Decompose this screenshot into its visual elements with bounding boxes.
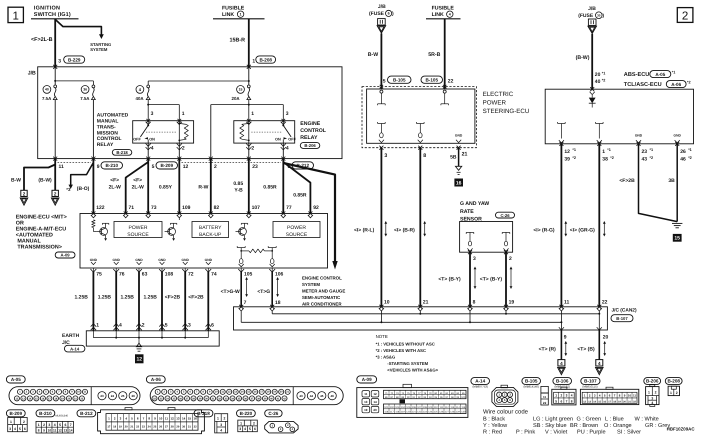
ECU top pin 92	[308, 212, 312, 216]
svg-text:(B-W): (B-W)	[38, 178, 52, 184]
fuse 40 (7.5A)	[43, 86, 51, 94]
svg-text:128: 128	[450, 411, 455, 414]
wire: <T> (B) to connector 4b	[598, 330, 600, 360]
relay B-206 pin 3 top	[282, 119, 286, 123]
svg-text:<F>: <F>	[110, 177, 119, 183]
svg-text:3: 3	[473, 256, 476, 262]
svg-text:32: 32	[194, 426, 197, 429]
ABS input pin with diode	[590, 87, 594, 91]
svg-text:1: 1	[251, 111, 254, 117]
svg-text:109: 109	[428, 406, 433, 409]
wire: <I> (R-L) EPS 3 to CAN pin 10	[380, 148, 382, 307]
svg-text:B-105: B-105	[425, 77, 438, 82]
svg-text:<F>2B: <F>2B	[619, 178, 635, 184]
svg-text:11: 11	[564, 299, 570, 305]
svg-text:4: 4	[571, 394, 573, 398]
J/C CAN2 top pin 8	[468, 305, 472, 309]
svg-text:115: 115	[461, 406, 465, 409]
svg-text:4: 4	[651, 401, 653, 405]
svg-text:127: 127	[445, 411, 450, 414]
svg-text:RELAY: RELAY	[300, 135, 318, 141]
svg-text:2L-W: 2L-W	[132, 184, 145, 190]
wire: relay B-218 pin4 to J/B pin 5	[147, 143, 149, 159]
svg-text:*1: *1	[672, 70, 676, 74]
svg-text:P : Pink: P : Pink	[516, 428, 535, 435]
svg-text:13: 13	[176, 416, 180, 420]
wire: <I> (R-G) ABS 12/39 to CAN pin 11	[560, 144, 562, 306]
svg-text:3: 3	[651, 396, 653, 400]
svg-text:C-26: C-26	[500, 213, 510, 218]
svg-text:63: 63	[142, 271, 148, 277]
wire: 0.85 Y-B pin 23 to ECU pin 107	[248, 159, 250, 214]
svg-text:19: 19	[509, 299, 515, 305]
svg-text:B-209: B-209	[10, 411, 23, 416]
svg-text:*1: *1	[607, 148, 611, 152]
svg-text:OFF: OFF	[288, 138, 296, 142]
EPS output pin 3 stub	[378, 123, 386, 125]
svg-text:126: 126	[439, 411, 444, 414]
ECU battery back-up block	[192, 222, 229, 238]
svg-text:3: 3	[220, 423, 222, 427]
svg-text:46: 46	[331, 394, 335, 398]
svg-text:3: 3	[566, 394, 568, 398]
svg-text:23: 23	[142, 426, 145, 429]
svg-text:40A: 40A	[136, 96, 145, 101]
svg-text:AIR CONDITIONER: AIR CONDITIONER	[302, 301, 342, 306]
svg-text:ELECTRIC: ELECTRIC	[483, 91, 514, 98]
wire: fuse 4 output to AMT relay	[147, 100, 149, 121]
J/C CAN2 top pin 10	[379, 305, 383, 309]
svg-text:43: 43	[642, 156, 648, 162]
svg-text:4: 4	[54, 423, 56, 427]
wire: <T>G to J/C CAN2 pin 18	[271, 268, 273, 272]
svg-text:1: 1	[96, 323, 99, 329]
svg-text:(B-W): (B-W)	[576, 55, 590, 61]
J/B bottom pin 6 (B-212)	[281, 157, 285, 161]
wire: pin 5 to ECU pin 73	[147, 159, 149, 214]
svg-text:15: 15	[674, 236, 680, 242]
svg-text:45: 45	[320, 394, 324, 398]
ECU transistor Q3	[239, 228, 247, 236]
wire: (B-W) to ABS-ECU	[591, 34, 593, 89]
svg-text:1: 1	[602, 149, 605, 155]
svg-text:106: 106	[275, 271, 284, 277]
J/B bottom pin 9 (B-210)	[91, 157, 95, 161]
svg-text:24: 24	[148, 426, 151, 429]
svg-text:130: 130	[461, 411, 466, 414]
svg-text:1: 1	[12, 10, 18, 22]
svg-text:15: 15	[188, 416, 192, 420]
CAN exit pins 9/20	[560, 322, 562, 330]
svg-text:SYSTEM: SYSTEM	[90, 47, 108, 52]
svg-text:8: 8	[571, 399, 573, 403]
svg-text:<T> (B-Y): <T> (B-Y)	[438, 277, 461, 283]
svg-text:7: 7	[244, 300, 247, 306]
ECU internal resistor + transistor Q1	[92, 220, 95, 228]
joint connector J/C CAN2 (B-107) box	[234, 307, 608, 330]
svg-text:8: 8	[423, 153, 426, 159]
svg-text:11: 11	[59, 164, 65, 170]
svg-text:SOURCE: SOURCE	[286, 232, 308, 238]
svg-text:2: 2	[23, 191, 26, 196]
svg-text:Y-B: Y-B	[234, 188, 243, 194]
connector A-06 pinout	[150, 387, 343, 405]
engine ECU box (A-09)	[80, 214, 328, 269]
svg-text:POWER: POWER	[129, 225, 148, 231]
svg-text:10: 10	[628, 394, 632, 398]
svg-text:9: 9	[43, 429, 45, 433]
fuse 36 (7.5A)	[81, 86, 89, 94]
connector B-105 pinout	[541, 386, 548, 393]
svg-text:18: 18	[275, 300, 281, 306]
svg-text:20A: 20A	[232, 96, 241, 101]
svg-text:G : Green: G : Green	[577, 416, 602, 422]
connector A-06 label	[146, 376, 165, 383]
EPS input pin 5	[380, 85, 383, 88]
svg-text:<T> (B): <T> (B)	[577, 346, 595, 352]
connector pin 3 (B-229)	[53, 65, 57, 69]
wire: EPS pin 21 to ground 16	[458, 148, 460, 167]
svg-text:EARTH: EARTH	[62, 333, 80, 339]
connector A-05 pinout	[9, 387, 140, 405]
relay B-218 pin 3 top	[146, 119, 150, 123]
wire: 0.85R branch to ECU pin 92	[283, 162, 310, 214]
svg-text:(FUSE: (FUSE	[369, 11, 385, 17]
svg-text:SB : Sky blue: SB : Sky blue	[533, 422, 567, 429]
svg-text:POWER: POWER	[483, 100, 507, 107]
J/C CAN2 top pin 21	[418, 305, 422, 309]
ECU power source block 1	[114, 222, 162, 238]
svg-text:A-06: A-06	[151, 377, 161, 382]
svg-text:SEMI-AUTOMATIC: SEMI-AUTOMATIC	[302, 295, 341, 300]
svg-text:<VEHICLES WITH AS&G>: <VEHICLES WITH AS&G>	[387, 368, 438, 373]
connector B-208 label	[665, 378, 682, 385]
svg-text:B-218: B-218	[116, 150, 128, 155]
wire: <T> (R) to connector 4a	[560, 330, 562, 360]
svg-text:21: 21	[423, 299, 429, 305]
J/B fuse 30 connector symbol	[588, 19, 596, 25]
fuse 4 (40A)	[136, 86, 144, 94]
svg-text:*2: *2	[687, 80, 691, 84]
J/C CAN2 top pin 11	[559, 305, 563, 309]
svg-text:14: 14	[69, 429, 73, 433]
svg-text:5: 5	[165, 323, 168, 329]
svg-text:*2: *2	[572, 156, 576, 160]
svg-text:2: 2	[23, 420, 25, 424]
svg-text:CONTROL: CONTROL	[300, 128, 326, 134]
wire: relay B-206 pin4 to J/B pin 6	[282, 143, 284, 159]
svg-text:109: 109	[182, 205, 191, 211]
svg-text:GND: GND	[674, 133, 682, 137]
svg-text:124: 124	[428, 411, 433, 414]
svg-text:23: 23	[642, 149, 648, 155]
svg-text:19: 19	[119, 426, 122, 429]
svg-text:BATTERY: BATTERY	[199, 225, 222, 231]
wire: 5R-B from fusible link 4	[444, 19, 446, 89]
svg-text:<F>2L-B: <F>2L-B	[31, 37, 53, 43]
connector B-220 label	[237, 410, 256, 417]
svg-text:28: 28	[171, 426, 174, 429]
svg-text:B-206: B-206	[304, 143, 316, 148]
ECU CAN terminating resistor between 105/106	[237, 247, 245, 249]
svg-text:1.25B: 1.25B	[75, 295, 89, 301]
svg-text:B-210: B-210	[105, 163, 118, 168]
svg-text:15B-R: 15B-R	[230, 38, 246, 44]
svg-text:104: 104	[401, 406, 406, 409]
ABS output stub pin 12/39	[558, 123, 566, 125]
electric power steering ECU dashed box	[362, 87, 476, 148]
svg-text:SOURCE: SOURCE	[127, 232, 149, 238]
svg-text:2: 2	[214, 164, 217, 170]
svg-text:5: 5	[19, 427, 21, 431]
svg-text:0.85Y: 0.85Y	[159, 184, 173, 190]
svg-text:30: 30	[597, 13, 601, 17]
relay B-218 pin 4 bottom	[146, 144, 151, 147]
svg-text:B-106: B-106	[556, 379, 569, 384]
svg-text:0.85R: 0.85R	[263, 184, 277, 190]
svg-text:13: 13	[64, 429, 68, 433]
svg-text:1.25B: 1.25B	[121, 295, 135, 301]
G and yaw rate sensor box (C-26)	[460, 222, 513, 253]
ECU top pin 71	[124, 212, 128, 216]
svg-text:1.25B: 1.25B	[98, 295, 112, 301]
svg-text:<I> (R-L): <I> (R-L)	[354, 228, 375, 234]
svg-text:31: 31	[188, 426, 191, 429]
EPS output pin 8 stub	[417, 123, 425, 125]
connector B-208 pinout	[668, 386, 679, 395]
svg-text:22: 22	[448, 78, 454, 84]
svg-text:3: 3	[384, 153, 387, 159]
svg-text:ABS-ECU: ABS-ECU	[624, 72, 649, 78]
connector B-209 pinout	[8, 418, 28, 432]
wire: R-W pin 2 to ECU pin 82	[210, 159, 212, 214]
ground 16	[454, 179, 463, 187]
wire: <I> (B-R) EPS 8 to CAN pin 21	[419, 148, 421, 307]
svg-text:26: 26	[159, 426, 162, 429]
svg-text:*1: *1	[650, 148, 654, 152]
wire: (B-W) to page connector 2b	[54, 165, 56, 191]
sensor pin 2 stub	[502, 231, 510, 233]
svg-text:G AND YAW: G AND YAW	[460, 201, 489, 207]
svg-text:2: 2	[223, 416, 225, 420]
svg-text:POWER: POWER	[287, 225, 306, 231]
svg-text:10: 10	[159, 416, 163, 420]
svg-text:1: 1	[252, 59, 255, 65]
svg-text:118: 118	[395, 411, 399, 414]
svg-text:GND: GND	[455, 133, 463, 137]
J/B bottom pin 11	[53, 157, 57, 161]
svg-text:106: 106	[412, 406, 417, 409]
connector B-220 pinout	[238, 420, 257, 432]
svg-text:122: 122	[417, 411, 422, 414]
wire: <T>G-W to J/C CAN2 pin 7	[240, 268, 242, 272]
svg-text:LINK: LINK	[222, 12, 234, 18]
wire: B-W from J/B fuse 6	[380, 33, 382, 89]
connector B-107 pinout	[580, 389, 638, 404]
svg-text:2: 2	[43, 423, 45, 427]
wire: ABS ground 3B	[676, 144, 678, 222]
wire: <T> (B-Y) sensor 3 to CAN pin 8	[469, 252, 471, 306]
svg-text:5: 5	[152, 164, 155, 170]
svg-text:5: 5	[383, 78, 386, 84]
connector B-206 label	[644, 378, 661, 385]
wire: <T> (B-Y) sensor 2 to CAN pin 19	[505, 252, 507, 306]
svg-text:A-05: A-05	[11, 377, 21, 382]
svg-text:0.85R: 0.85R	[293, 192, 307, 198]
svg-text:72: 72	[188, 271, 194, 277]
connector B-106 pinout	[552, 389, 576, 405]
svg-text:1: 1	[182, 111, 185, 117]
svg-text:2: 2	[682, 10, 688, 22]
svg-text:4: 4	[449, 12, 451, 16]
relay B-206 pin 1 top	[247, 119, 251, 123]
svg-text:76: 76	[119, 271, 125, 277]
svg-text:<T>G: <T>G	[257, 289, 270, 295]
svg-text:B-208: B-208	[259, 57, 272, 62]
svg-text:1: 1	[648, 390, 650, 394]
svg-text:7.5A: 7.5A	[80, 96, 90, 101]
svg-text:13: 13	[364, 400, 368, 404]
wire: <I> (GR-G) ABS 1/38 to CAN pin 22	[598, 144, 600, 306]
wire: 76 earth lead	[115, 268, 117, 272]
svg-text:117: 117	[390, 411, 394, 414]
svg-text:2: 2	[676, 391, 678, 395]
connector mating dashes	[58, 161, 92, 163]
svg-text:C-26: C-26	[268, 411, 278, 416]
svg-text:GND: GND	[635, 133, 643, 137]
sensor bottom pin labels	[468, 250, 472, 254]
svg-text:75: 75	[96, 271, 102, 277]
svg-text:NOTE: NOTE	[376, 334, 388, 339]
svg-text:119: 119	[401, 411, 405, 414]
svg-text:SI : Silver: SI : Silver	[617, 428, 641, 435]
svg-text:LINK: LINK	[432, 12, 444, 18]
svg-text:A-06: A-06	[671, 82, 681, 87]
connector B-218 label	[194, 410, 213, 417]
svg-text:17: 17	[107, 426, 110, 429]
J/B bottom pin 23	[247, 157, 251, 161]
svg-text:107: 107	[417, 406, 422, 409]
svg-text:2: 2	[251, 145, 254, 151]
wire: fuse 40 output to pin 11	[54, 100, 56, 159]
svg-text:125: 125	[434, 411, 439, 414]
svg-text:(FUSE: (FUSE	[578, 13, 594, 19]
svg-text:2L-W: 2L-W	[109, 184, 122, 190]
svg-text:Y : Yellow: Y : Yellow	[483, 422, 508, 429]
svg-text:1: 1	[240, 12, 242, 16]
svg-text:STEERING-ECU: STEERING-ECU	[483, 108, 530, 115]
svg-text:22: 22	[136, 426, 139, 429]
ECU top pin 107	[247, 212, 251, 216]
connector B-212 pinout	[98, 410, 205, 434]
svg-text:2: 2	[560, 394, 562, 398]
svg-text:MU801340: MU801340	[55, 414, 68, 417]
svg-text:1: 1	[670, 391, 672, 395]
svg-text:38: 38	[602, 156, 608, 162]
svg-text:B-212: B-212	[80, 411, 93, 416]
connector A-05 label	[6, 376, 25, 383]
svg-text:6: 6	[24, 427, 26, 431]
wire: drop to engine relay pin 3	[282, 105, 284, 121]
relay B-218 switch	[147, 121, 149, 126]
wire: B-W to page connector 2a	[24, 159, 55, 191]
svg-text:5B: 5B	[450, 155, 457, 161]
svg-text:10: 10	[48, 429, 52, 433]
J/B bottom pin 12	[177, 157, 181, 161]
ground 12	[135, 354, 144, 363]
svg-text:11: 11	[364, 392, 368, 396]
svg-text:ON: ON	[275, 137, 281, 141]
svg-text:16: 16	[456, 180, 462, 186]
svg-text:IGNITION: IGNITION	[34, 5, 60, 11]
ECU bottom pins 105/106	[238, 269, 244, 272]
svg-text:3: 3	[151, 111, 154, 117]
wire: B-208 feed to fuses 4 and 15	[248, 67, 250, 85]
svg-text:71: 71	[129, 205, 135, 211]
svg-text:22: 22	[602, 299, 608, 305]
wire: 108 earth lead	[161, 268, 163, 272]
svg-text:123: 123	[423, 411, 428, 414]
svg-text:GND: GND	[182, 258, 190, 262]
wire: pin 9 to ECU pin 122	[92, 159, 94, 214]
svg-text:5: 5	[555, 399, 557, 403]
svg-text:1.25B: 1.25B	[144, 295, 158, 301]
svg-text:120: 120	[406, 411, 411, 414]
svg-text:4: 4	[244, 427, 246, 431]
svg-text:4: 4	[151, 145, 154, 151]
svg-text:7: 7	[566, 399, 568, 403]
wire: 0.85Y pin 12 to ECU pin 109	[178, 159, 180, 214]
svg-text:77: 77	[286, 205, 292, 211]
svg-text:Wire colour code: Wire colour code	[483, 409, 529, 416]
svg-text:A-09: A-09	[362, 377, 372, 382]
fuse 15 (20A)	[237, 86, 245, 94]
ECU top pin 77	[281, 212, 285, 216]
svg-text:27: 27	[165, 426, 168, 429]
svg-text:107: 107	[252, 205, 261, 211]
EPS input pin 22	[443, 85, 446, 88]
earth J/C (A-14) box	[86, 331, 219, 346]
svg-text:5: 5	[249, 427, 251, 431]
svg-text:3: 3	[48, 423, 50, 427]
svg-text:3: 3	[9, 427, 11, 431]
svg-text:9: 9	[97, 164, 100, 170]
svg-text:102: 102	[390, 406, 395, 409]
svg-text:108: 108	[165, 271, 174, 277]
svg-text:J/B: J/B	[28, 70, 36, 76]
svg-text:112: 112	[445, 406, 449, 409]
svg-text:20: 20	[595, 72, 601, 78]
svg-text:29: 29	[176, 426, 179, 429]
svg-text:*1: *1	[572, 148, 576, 152]
svg-text:SYSTEM: SYSTEM	[302, 282, 320, 287]
svg-text:105: 105	[406, 406, 411, 409]
relay B-218 pin 2 bottom	[177, 144, 182, 147]
svg-text:24: 24	[111, 394, 115, 398]
svg-text:20: 20	[603, 334, 609, 340]
wire: fuse 36 output to pin 9	[92, 100, 94, 159]
svg-text:103: 103	[395, 406, 400, 409]
svg-text:5R-B: 5R-B	[428, 52, 440, 58]
svg-text:METER AND GAUGE: METER AND GAUGE	[302, 288, 345, 293]
svg-text:*1: *1	[602, 71, 606, 75]
svg-text:6: 6	[64, 423, 66, 427]
CAN bus line B lower (7-10-8-11)	[241, 321, 561, 323]
svg-text:7.5A: 7.5A	[42, 96, 52, 101]
svg-text:14: 14	[373, 400, 377, 404]
connector B-210 pinout	[36, 421, 73, 433]
svg-text:36: 36	[83, 88, 87, 92]
